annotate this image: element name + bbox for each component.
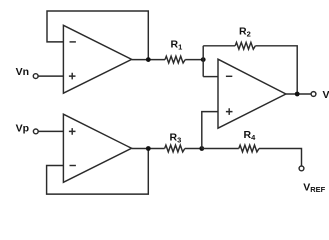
wire node A vertical [202, 46, 204, 77]
wire node A to U3 - input [203, 76, 218, 78]
terminal VREF [299, 166, 304, 171]
svg-text:R2: R2 [239, 25, 251, 38]
svg-text:Vp: Vp [16, 123, 29, 135]
wire R2 to output node [255, 46, 297, 94]
resistor R2 [235, 42, 255, 49]
wire R4 to VREF terminal [259, 149, 302, 166]
wire Vn to U1 + input [38, 75, 63, 77]
wire U2 output to R3 [132, 148, 165, 150]
svg-text:R3: R3 [170, 131, 182, 144]
junction U1 output node [146, 57, 151, 62]
op-amp U1 [63, 25, 131, 93]
wire Vp to U2 + input [38, 130, 63, 132]
wire U2 feedback loop [47, 149, 149, 195]
resistor R3 [165, 145, 185, 152]
input terminal Vp [33, 129, 38, 134]
junction U2 output node [146, 146, 151, 151]
resistor R1 [165, 56, 185, 63]
node B (U3 non-inverting node) [199, 146, 204, 151]
wire U1 output to R1 [132, 59, 165, 61]
op-amp U3 [218, 59, 286, 128]
svg-text:R4: R4 [244, 129, 257, 142]
op-amp U2 [63, 114, 131, 182]
input terminal Vn [33, 74, 38, 79]
svg-text:VREF: VREF [303, 182, 325, 195]
resistor R4 [239, 145, 259, 152]
wire node A to R2 [203, 45, 235, 47]
node A (U3 inverting node) [201, 57, 206, 62]
output terminal V [311, 92, 316, 97]
wire node B to R4 [202, 148, 239, 150]
wire R3 to node B [185, 148, 202, 150]
wire R1 to node A [185, 59, 203, 61]
wire U3 output [286, 93, 311, 95]
svg-text:R1: R1 [171, 38, 183, 51]
wire U1 feedback loop [47, 11, 148, 60]
svg-text:V: V [323, 89, 329, 101]
junction U3 output node [295, 92, 300, 97]
svg-text:Vn: Vn [16, 66, 29, 78]
wire node B to U3 + input [202, 112, 218, 149]
